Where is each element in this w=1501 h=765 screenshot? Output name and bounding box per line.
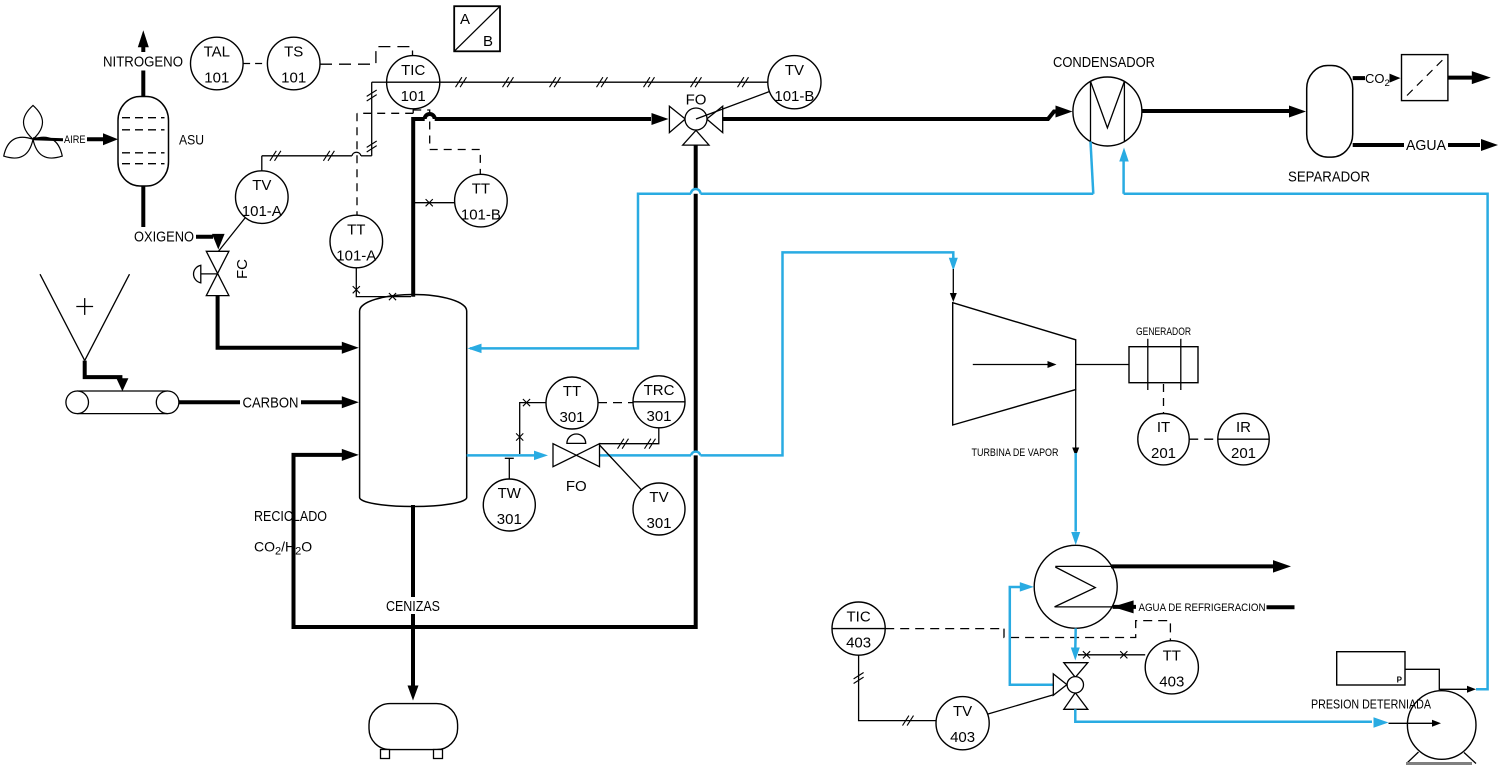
wire oxygen to FC valve bbox=[196, 235, 213, 239]
svg-text:CO2: CO2 bbox=[1365, 71, 1390, 89]
pump circle bbox=[1407, 691, 1476, 760]
wire signal TIC403 to TV403 with hash marks bbox=[859, 655, 936, 720]
svg-text:AGUA: AGUA bbox=[1406, 137, 1446, 154]
wire signal TRC301 to valve with hash marks bbox=[600, 428, 659, 444]
svg-text:301: 301 bbox=[497, 511, 522, 528]
instrument TS 101 bbox=[267, 37, 320, 90]
svg-text:CO2/H2O: CO2/H2O bbox=[254, 539, 312, 558]
instrument TT 101-B bbox=[455, 174, 508, 227]
hopper coal bbox=[40, 274, 130, 360]
wire actuator stem TV301 to valve bbox=[600, 445, 642, 490]
svg-text:AIRE: AIRE bbox=[64, 134, 86, 146]
svg-text:101: 101 bbox=[281, 70, 306, 87]
svg-text:FC: FC bbox=[234, 259, 251, 279]
wire turbine inlet black arrow bbox=[952, 269, 954, 295]
svg-text:TV: TV bbox=[252, 177, 271, 194]
svg-text:301: 301 bbox=[646, 408, 671, 425]
wire cyan steam gasifier outlet to FO valve bbox=[467, 454, 537, 457]
wire dashed generator to IT201 bbox=[1163, 384, 1165, 414]
vessel SEPARADOR bbox=[1307, 66, 1353, 158]
wire thermowell TT101-B to gas line bbox=[413, 202, 454, 204]
svg-text:FO: FO bbox=[686, 92, 707, 109]
svg-text:101: 101 bbox=[204, 70, 229, 87]
svg-text:TURBINA DE VAPOR: TURBINA DE VAPOR bbox=[972, 447, 1059, 459]
wire thermowell TT101-A to gasifier dome bbox=[356, 268, 411, 297]
wire turbine exhaust black then cyan bbox=[1075, 390, 1077, 448]
svg-text:301: 301 bbox=[559, 409, 584, 426]
svg-text:CENIZAS: CENIZAS bbox=[386, 598, 440, 615]
wire thermowell TT301 bbox=[520, 403, 546, 454]
wire condenser to separator bbox=[1142, 109, 1289, 113]
wire CO2 outlet bbox=[1353, 76, 1365, 80]
wire cyan condensate return to gasifier bbox=[470, 189, 1093, 348]
svg-text:AGUA DE REFRIGERACION: AGUA DE REFRIGERACION bbox=[1139, 602, 1266, 614]
instrument IT 201 bbox=[1138, 414, 1189, 465]
wire cyan condenser left drain bbox=[1091, 142, 1094, 194]
instrument TIC 101 bbox=[387, 56, 440, 109]
instrument TV 403 bbox=[936, 697, 989, 750]
instrument TT 301 bbox=[546, 377, 598, 429]
wire shaft turbine to generator bbox=[1076, 364, 1129, 366]
valve FO top three-way bbox=[669, 106, 722, 145]
wire cyan cooling water to condenser and down right side bbox=[1124, 161, 1488, 690]
wire actuator stem TV101-A to FC valve bbox=[218, 218, 245, 252]
heat exchanger circle with coil bbox=[1034, 545, 1117, 628]
turbine trapezoid bbox=[953, 303, 1076, 425]
svg-text:TIC: TIC bbox=[847, 609, 871, 626]
wire FC valve to gasifier oxygen feed bbox=[218, 296, 342, 348]
svg-text:B: B bbox=[483, 33, 493, 50]
wire thermowell TT403 bbox=[1078, 654, 1145, 656]
svg-text:201: 201 bbox=[1151, 445, 1176, 462]
svg-text:RECICLADO: RECICLADO bbox=[254, 508, 327, 525]
svg-text:TRC: TRC bbox=[644, 382, 675, 399]
svg-text:P: P bbox=[1397, 676, 1403, 685]
vessel ash drum bbox=[369, 704, 458, 750]
svg-text:TV: TV bbox=[785, 62, 804, 79]
wire P box to discharge bbox=[1405, 669, 1468, 689]
svg-text:TV: TV bbox=[953, 703, 972, 720]
instrument TT 101-A bbox=[330, 215, 383, 268]
wire nitrogen out up bbox=[141, 71, 145, 97]
wire actuator stem TV101-B to FO valve bbox=[696, 92, 770, 120]
svg-text:TT: TT bbox=[563, 383, 581, 400]
wire signal through TIC101 to corner bbox=[387, 81, 440, 83]
wire dashed TT301 to TRC301 bbox=[598, 402, 633, 404]
svg-text:101-B: 101-B bbox=[461, 207, 501, 224]
svg-text:NITROGENO: NITROGENO bbox=[103, 54, 183, 71]
wire FO valve to condenser bbox=[723, 112, 1056, 120]
svg-text:PRESION DETERNIADA: PRESION DETERNIADA bbox=[1311, 698, 1432, 712]
svg-text:403: 403 bbox=[846, 635, 871, 652]
svg-text:101-B: 101-B bbox=[774, 88, 814, 105]
svg-text:201: 201 bbox=[1231, 445, 1256, 462]
svg-text:TT: TT bbox=[472, 181, 490, 198]
svg-text:CARBON: CARBON bbox=[243, 394, 299, 411]
instrument TV 301 bbox=[633, 483, 685, 535]
wire dashed TIC101 bottom branch bbox=[357, 109, 480, 215]
svg-text:301: 301 bbox=[646, 515, 671, 532]
conveyor belt bbox=[66, 391, 179, 414]
wire recycle loop from FO valve down and into gasifier bbox=[294, 145, 696, 627]
svg-text:403: 403 bbox=[1159, 673, 1184, 690]
wire gasifier top gas outlet to FO valve bbox=[411, 121, 415, 297]
box CO2 filter bbox=[1402, 55, 1448, 101]
instrument TV 101-A bbox=[235, 171, 288, 224]
condenser circle with M coil bbox=[1073, 77, 1142, 146]
valve FC bbox=[194, 251, 229, 295]
svg-text:IT: IT bbox=[1157, 419, 1170, 436]
wire small arrow CO2 to filter box bbox=[1390, 74, 1401, 83]
svg-text:TAL: TAL bbox=[204, 44, 230, 61]
pump support legs bbox=[1407, 752, 1419, 764]
wire actuator stem TV403 to valve403 bbox=[988, 695, 1054, 714]
generator box bbox=[1129, 347, 1198, 383]
wire cyan valve403 to pump bbox=[1075, 709, 1372, 721]
wire fan to AIRE label bbox=[33, 139, 63, 140]
wire conveyor to gasifier CARBON bbox=[179, 400, 240, 404]
wire cyan HX bottom to valve403 bbox=[1074, 628, 1077, 649]
wire oxygen out down bbox=[141, 186, 145, 227]
svg-text:TT: TT bbox=[1163, 647, 1181, 664]
svg-text:TW: TW bbox=[498, 485, 522, 502]
instrument TW 301 bbox=[483, 479, 535, 531]
vessel gasifier bbox=[360, 295, 467, 507]
wire dashed TIC403 to TT403 bbox=[885, 621, 1170, 641]
svg-text:403: 403 bbox=[950, 729, 975, 746]
svg-text:TS: TS bbox=[284, 44, 303, 61]
wire AGUA DE REFRIGERACION inlet bbox=[1113, 600, 1134, 613]
wire dashed TAL to TS bbox=[243, 63, 267, 65]
vessel ASU bbox=[118, 97, 169, 187]
svg-text:TV: TV bbox=[649, 489, 668, 506]
wire gasifier bottom to ash drum bbox=[411, 505, 415, 688]
valve three-way 403 bbox=[1053, 663, 1088, 710]
instrument TRC 301 bbox=[633, 376, 685, 428]
svg-text:IR: IR bbox=[1236, 419, 1251, 436]
svg-text:OXIGENO: OXIGENO bbox=[134, 229, 194, 246]
svg-text:GENERADOR: GENERADOR bbox=[1136, 326, 1191, 338]
instrument TV 101-B bbox=[768, 56, 821, 109]
wire AIRE arrow into ASU bbox=[87, 137, 104, 141]
label CENIZAS bbox=[383, 597, 443, 614]
instrument TAL 101 bbox=[191, 37, 244, 90]
fan blade air intake bbox=[0, 105, 67, 164]
instrument IR 201 bbox=[1218, 414, 1269, 465]
svg-text:ASU: ASU bbox=[179, 132, 204, 148]
svg-text:101-A: 101-A bbox=[242, 203, 282, 220]
svg-text:101-A: 101-A bbox=[336, 248, 376, 265]
svg-text:FO: FO bbox=[566, 478, 587, 495]
svg-text:SEPARADOR: SEPARADOR bbox=[1288, 169, 1370, 186]
wire hopper to conveyor bbox=[85, 361, 123, 378]
wire thermowell TW301 bbox=[508, 458, 510, 479]
wire dashed TS to TIC101 bbox=[320, 47, 413, 65]
wire dashed IT201 to IR201 bbox=[1189, 438, 1218, 440]
instrument TIC 403 bbox=[832, 602, 885, 655]
svg-text:CONDENSADOR: CONDENSADOR bbox=[1053, 54, 1155, 71]
pressure controller box P bbox=[1337, 652, 1405, 685]
valve FO 301 bbox=[553, 434, 600, 467]
wire cyan valve403 bypass to HX left inlet bbox=[1010, 587, 1054, 685]
svg-text:TT: TT bbox=[347, 222, 365, 239]
box A/B legend bbox=[454, 6, 500, 51]
wire AGUA outlet arrow bbox=[1353, 143, 1404, 147]
instrument TT 403 bbox=[1145, 641, 1198, 694]
wire CO2 filter outlet arrow bbox=[1448, 76, 1472, 80]
svg-text:TIC: TIC bbox=[401, 62, 425, 79]
wire heat exchanger steam outlet arrow bbox=[1111, 564, 1273, 568]
svg-text:A: A bbox=[460, 11, 470, 28]
svg-text:101: 101 bbox=[401, 88, 426, 105]
wire signal corner to TV101-A with hop over dashed bbox=[361, 155, 372, 157]
wire cyan steam FO valve to turbine bbox=[600, 252, 954, 455]
wire signal TIC101 to TV101-B with hash marks bbox=[440, 81, 768, 83]
